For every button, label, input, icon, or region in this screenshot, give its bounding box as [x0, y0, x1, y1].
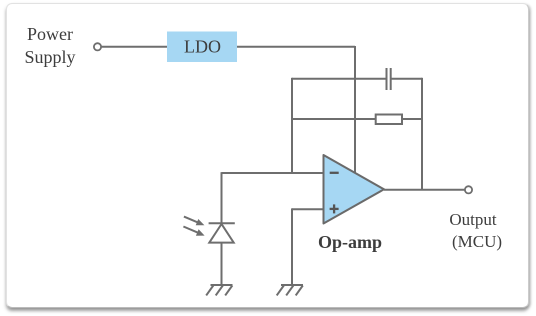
capacitor C1	[387, 68, 391, 90]
wire output	[384, 189, 465, 191]
regulator LDO	[167, 32, 237, 63]
svg-text:(MCU): (MCU)	[452, 232, 502, 251]
svg-text:Output: Output	[449, 210, 497, 229]
op-amp U1	[324, 155, 385, 224]
wire capacitor row right	[392, 78, 423, 80]
svg-text:Power: Power	[27, 24, 73, 44]
light arrow 2	[183, 227, 204, 236]
input terminal	[94, 43, 101, 50]
light arrow 1	[184, 217, 205, 226]
ground left	[206, 285, 232, 295]
wire feedback right vertical	[421, 78, 423, 190]
label Power Supply	[24, 24, 75, 67]
wire photodiode to ground	[221, 243, 223, 285]
svg-text:LDO: LDO	[184, 37, 221, 57]
wire inverting input	[222, 172, 324, 174]
wire plus to ground	[291, 208, 293, 285]
ground right	[277, 285, 303, 295]
label Output (MCU)	[449, 210, 502, 251]
photodiode D1	[209, 223, 235, 242]
wire capacitor row left	[292, 78, 386, 80]
wire resistor row right	[402, 118, 422, 120]
wire non-inverting input	[292, 208, 324, 210]
resistor R1	[376, 115, 402, 125]
wire LDO to corner	[237, 46, 355, 48]
wire terminal to LDO	[102, 46, 168, 48]
wire photodiode top	[221, 172, 223, 223]
wire down to op-amp supply	[354, 46, 356, 173]
svg-text:Op-amp: Op-amp	[318, 232, 382, 252]
svg-text:Supply: Supply	[24, 47, 75, 67]
wire feedback left vertical	[291, 78, 293, 173]
wire resistor row left	[292, 118, 376, 120]
output terminal	[465, 186, 472, 193]
